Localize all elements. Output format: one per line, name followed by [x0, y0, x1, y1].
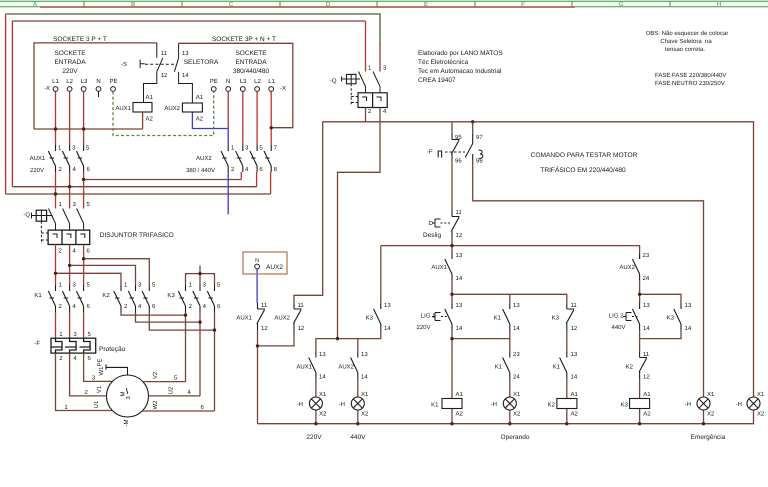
- svg-text:V1: V1: [96, 385, 103, 393]
- svg-text:14: 14: [571, 374, 578, 381]
- svg-text:A2: A2: [146, 116, 154, 123]
- svg-text:220V: 220V: [30, 167, 44, 174]
- svg-text:95: 95: [455, 134, 462, 141]
- svg-text:6: 6: [217, 303, 221, 310]
- svg-text:ENTRADA: ENTRADA: [54, 59, 86, 66]
- svg-text:220V: 220V: [62, 68, 78, 75]
- svg-text:A1: A1: [146, 94, 154, 101]
- svg-text:SELETORA: SELETORA: [184, 59, 219, 66]
- svg-text:L1: L1: [52, 78, 59, 85]
- svg-text:14: 14: [182, 72, 189, 79]
- svg-text:Chave Seletora na: Chave Seletora na: [660, 38, 712, 45]
- svg-text:Téc Eletrotécnica: Téc Eletrotécnica: [418, 59, 469, 66]
- svg-text:3: 3: [138, 282, 142, 289]
- svg-text:5: 5: [88, 331, 92, 338]
- svg-text:6: 6: [88, 355, 92, 362]
- svg-text:K3: K3: [621, 402, 629, 409]
- svg-text:14: 14: [319, 374, 326, 381]
- svg-text:AUX2: AUX2: [196, 155, 212, 162]
- svg-text:K2: K2: [102, 292, 110, 299]
- svg-text:5: 5: [87, 201, 91, 208]
- svg-text:5: 5: [259, 145, 263, 152]
- svg-text:N: N: [96, 78, 100, 85]
- svg-text:98: 98: [476, 158, 483, 165]
- svg-text:3: 3: [73, 331, 77, 338]
- svg-text:X1: X1: [361, 391, 369, 398]
- svg-text:4: 4: [73, 303, 77, 310]
- svg-text:A1: A1: [456, 391, 464, 398]
- svg-text:14: 14: [384, 325, 391, 332]
- svg-text:440V: 440V: [611, 324, 625, 331]
- svg-text:4: 4: [203, 303, 207, 310]
- svg-text:ENTRADA: ENTRADA: [235, 59, 267, 66]
- svg-text:A1: A1: [196, 94, 204, 101]
- svg-text:A2: A2: [571, 411, 579, 418]
- svg-text:1: 1: [59, 201, 63, 208]
- svg-text:K1: K1: [34, 292, 42, 299]
- svg-text:12: 12: [643, 374, 650, 381]
- svg-text:A: A: [33, 1, 37, 8]
- svg-text:12: 12: [571, 325, 578, 332]
- svg-text:L3: L3: [81, 78, 88, 85]
- svg-text:8: 8: [274, 166, 278, 173]
- svg-text:DISJUNTOR TRIFASICO: DISJUNTOR TRIFASICO: [100, 232, 174, 239]
- svg-text:13: 13: [384, 302, 391, 309]
- svg-text:SOCKETE 3 P + T: SOCKETE 3 P + T: [53, 36, 107, 43]
- svg-text:-S: -S: [121, 61, 127, 68]
- svg-text:AUX2: AUX2: [338, 364, 354, 371]
- svg-text:1: 1: [124, 282, 128, 289]
- svg-text:220V: 220V: [416, 324, 430, 331]
- svg-text:TRIFÁSICO EM 220/440/480: TRIFÁSICO EM 220/440/480: [540, 166, 626, 174]
- svg-text:6: 6: [201, 404, 205, 411]
- svg-text:AUX1: AUX1: [296, 364, 312, 371]
- svg-text:97: 97: [476, 134, 483, 141]
- svg-text:G: G: [619, 1, 624, 8]
- svg-text:1: 1: [59, 282, 63, 289]
- svg-text:FASE FASE 220/380/440V: FASE FASE 220/380/440V: [655, 72, 726, 79]
- svg-text:6: 6: [87, 248, 91, 255]
- svg-text:X2: X2: [707, 411, 715, 418]
- svg-text:K2: K2: [548, 402, 556, 409]
- svg-text:14: 14: [643, 325, 650, 332]
- svg-text:13: 13: [513, 302, 520, 309]
- svg-text:7: 7: [274, 145, 278, 152]
- svg-text:X2: X2: [757, 411, 765, 418]
- svg-text:Elaborado por LANO MATOS: Elaborado por LANO MATOS: [418, 50, 503, 57]
- svg-text:-X: -X: [280, 85, 286, 92]
- svg-text:A2: A2: [643, 411, 651, 418]
- svg-text:AUX2: AUX2: [619, 264, 635, 271]
- svg-text:FASE NEUTRO 230/250V: FASE NEUTRO 230/250V: [655, 80, 725, 87]
- svg-text:24: 24: [513, 374, 520, 381]
- svg-text:4: 4: [383, 108, 387, 115]
- svg-text:11: 11: [261, 302, 268, 309]
- svg-text:SOCKETE 3P + N + T: SOCKETE 3P + N + T: [212, 36, 276, 43]
- svg-text:12: 12: [261, 325, 268, 332]
- svg-text:K3: K3: [552, 315, 560, 322]
- svg-text:K3: K3: [167, 292, 175, 299]
- svg-text:X1: X1: [757, 391, 765, 398]
- svg-text:4: 4: [73, 166, 77, 173]
- svg-text:AUX1: AUX1: [431, 264, 447, 271]
- svg-text:-H: -H: [297, 401, 303, 408]
- svg-text:380/440/480: 380/440/480: [233, 68, 270, 75]
- svg-text:tensao correta.: tensao correta.: [665, 47, 705, 53]
- svg-text:X2: X2: [361, 411, 369, 418]
- svg-text:440V: 440V: [350, 434, 366, 441]
- svg-text:K3: K3: [366, 315, 374, 322]
- svg-text:5: 5: [174, 375, 178, 382]
- svg-text:5: 5: [87, 282, 91, 289]
- svg-text:220V: 220V: [306, 434, 322, 441]
- svg-text:LIG 2: LIG 2: [609, 313, 624, 320]
- svg-text:11: 11: [161, 50, 168, 57]
- svg-text:6: 6: [152, 303, 156, 310]
- svg-text:6: 6: [87, 166, 91, 173]
- svg-text:AUX2: AUX2: [274, 315, 290, 322]
- svg-text:24: 24: [643, 275, 650, 282]
- svg-text:CREA 19407: CREA 19407: [418, 77, 456, 84]
- svg-text:13: 13: [319, 351, 326, 358]
- svg-text:3: 3: [72, 145, 76, 152]
- svg-text:L2: L2: [66, 78, 73, 85]
- svg-text:-Q: -Q: [330, 78, 337, 85]
- svg-text:AUX2: AUX2: [164, 105, 180, 112]
- svg-text:1: 1: [64, 404, 68, 411]
- svg-text:A2: A2: [196, 116, 204, 123]
- svg-text:D: D: [429, 220, 434, 227]
- svg-text:A1: A1: [571, 391, 579, 398]
- svg-text:13: 13: [456, 302, 463, 309]
- svg-text:14: 14: [513, 325, 520, 332]
- svg-text:1: 1: [231, 145, 235, 152]
- svg-text:Emergência: Emergência: [691, 434, 726, 441]
- svg-text:4: 4: [73, 355, 77, 362]
- svg-text:96: 96: [455, 158, 462, 165]
- svg-text:23: 23: [643, 252, 650, 259]
- svg-text:COMANDO PARA TESTAR MOTOR: COMANDO PARA TESTAR MOTOR: [531, 152, 638, 159]
- svg-text:-F: -F: [34, 340, 40, 347]
- svg-text:N: N: [255, 258, 259, 264]
- svg-text:11: 11: [643, 351, 650, 358]
- svg-text:PE: PE: [109, 78, 117, 85]
- svg-text:12: 12: [456, 232, 463, 239]
- svg-text:-H: -H: [685, 401, 691, 408]
- svg-text:1: 1: [58, 145, 62, 152]
- svg-text:AUX1: AUX1: [30, 155, 46, 162]
- svg-text:PE: PE: [97, 358, 104, 366]
- svg-text:LIG 1: LIG 1: [421, 313, 436, 320]
- svg-text:OBS: Não esquecer de colocar: OBS: Não esquecer de colocar: [646, 30, 729, 37]
- svg-text:L2: L2: [254, 78, 261, 85]
- svg-text:14: 14: [456, 275, 463, 282]
- svg-text:AUX1: AUX1: [115, 105, 131, 112]
- svg-text:3: 3: [383, 65, 387, 72]
- svg-text:13: 13: [571, 351, 578, 358]
- svg-text:L1: L1: [268, 78, 275, 85]
- svg-text:5: 5: [86, 145, 90, 152]
- svg-text:V2: V2: [152, 371, 159, 379]
- svg-text:-H: -H: [736, 401, 742, 408]
- svg-text:Operando: Operando: [501, 434, 530, 441]
- svg-text:SOCKETE: SOCKETE: [54, 50, 86, 57]
- svg-text:A2: A2: [456, 411, 464, 418]
- svg-text:U2: U2: [168, 386, 175, 394]
- svg-text:12: 12: [161, 72, 168, 79]
- svg-text:K1: K1: [553, 364, 561, 371]
- svg-text:AUX2: AUX2: [266, 264, 283, 271]
- svg-text:4: 4: [138, 303, 142, 310]
- svg-text:11: 11: [456, 209, 463, 216]
- svg-text:380 / 440V: 380 / 440V: [186, 167, 215, 174]
- svg-text:3: 3: [245, 145, 249, 152]
- svg-text:23: 23: [513, 351, 520, 358]
- svg-text:N: N: [226, 78, 230, 85]
- svg-text:-X: -X: [44, 85, 50, 92]
- svg-text:K1: K1: [495, 364, 503, 371]
- svg-text:5: 5: [217, 282, 221, 289]
- svg-text:2: 2: [59, 166, 63, 173]
- svg-text:3: 3: [203, 282, 207, 289]
- svg-text:Proteção: Proteção: [99, 346, 126, 353]
- svg-text:Tec em Automacao Industrial: Tec em Automacao Industrial: [418, 68, 502, 75]
- svg-text:1: 1: [59, 331, 63, 338]
- svg-text:14: 14: [685, 325, 692, 332]
- svg-text:A1: A1: [643, 391, 651, 398]
- svg-text:12: 12: [298, 325, 305, 332]
- svg-text:-M: -M: [123, 420, 130, 427]
- svg-text:W2: W2: [152, 400, 159, 410]
- svg-text:-F: -F: [427, 149, 433, 156]
- svg-text:K1: K1: [494, 315, 502, 322]
- svg-text:2: 2: [189, 303, 193, 310]
- svg-text:-Q: -Q: [23, 212, 30, 219]
- svg-text:AUX1: AUX1: [236, 315, 252, 322]
- svg-text:11: 11: [571, 302, 578, 309]
- svg-text:13: 13: [643, 302, 650, 309]
- svg-text:-H: -H: [491, 401, 497, 408]
- svg-text:2: 2: [59, 303, 63, 310]
- svg-text:-H: -H: [339, 401, 345, 408]
- svg-text:X2: X2: [513, 411, 521, 418]
- svg-text:13: 13: [182, 50, 189, 57]
- svg-text:SOCKETE: SOCKETE: [235, 50, 267, 57]
- svg-text:2: 2: [85, 389, 89, 396]
- svg-text:H: H: [717, 1, 721, 8]
- svg-text:X2: X2: [319, 411, 327, 418]
- svg-text:14: 14: [456, 325, 463, 332]
- svg-text:2: 2: [59, 355, 63, 362]
- svg-text:U1: U1: [93, 400, 100, 408]
- svg-text:3: 3: [73, 282, 77, 289]
- svg-text:X1: X1: [513, 391, 521, 398]
- svg-text:3: 3: [73, 201, 77, 208]
- svg-text:K2: K2: [626, 364, 634, 371]
- svg-text:2: 2: [368, 108, 372, 115]
- svg-text:11: 11: [298, 302, 305, 309]
- svg-text:K1: K1: [431, 402, 439, 409]
- svg-text:4: 4: [73, 248, 77, 255]
- svg-text:6: 6: [259, 166, 263, 173]
- svg-text:13: 13: [361, 351, 368, 358]
- svg-text:13: 13: [685, 302, 692, 309]
- svg-text:1: 1: [368, 65, 372, 72]
- svg-text:K3: K3: [667, 315, 675, 322]
- svg-text:X1: X1: [319, 391, 327, 398]
- svg-text:Deslig: Deslig: [423, 232, 441, 239]
- svg-text:2: 2: [124, 303, 128, 310]
- svg-text:PE: PE: [210, 78, 218, 85]
- svg-text:4: 4: [245, 166, 249, 173]
- svg-text:2: 2: [59, 248, 63, 255]
- svg-text:L3: L3: [240, 78, 247, 85]
- svg-text:1: 1: [189, 282, 193, 289]
- svg-text:14: 14: [361, 374, 368, 381]
- svg-text:13: 13: [456, 252, 463, 259]
- svg-text:5: 5: [152, 282, 156, 289]
- svg-text:6: 6: [87, 303, 91, 310]
- svg-text:X1: X1: [707, 391, 715, 398]
- svg-text:4: 4: [188, 389, 192, 396]
- svg-text:2: 2: [231, 166, 235, 173]
- svg-text:3: 3: [92, 375, 96, 382]
- svg-text:M: M: [120, 392, 127, 397]
